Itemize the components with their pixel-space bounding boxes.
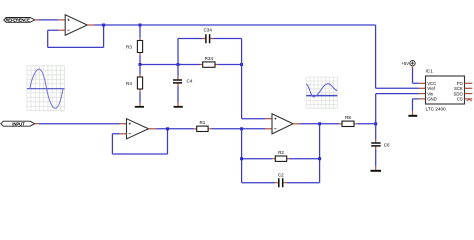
wire feedback right column: [319, 124, 321, 183]
wire C34 branch: [178, 39, 242, 65]
wire Vref stub: [376, 87, 419, 89]
node U2 output junction: [166, 127, 169, 130]
capacitor C2: [279, 178, 283, 187]
graph G2 axis: [306, 95, 337, 97]
wire U2 feedback loop: [112, 129, 167, 154]
node R2 right junction: [318, 157, 321, 160]
wire C2 row: [242, 182, 320, 184]
node R3 tap junction: [139, 24, 142, 27]
power +5V: [401, 61, 415, 66]
svg-text:C6: C6: [384, 142, 390, 147]
svg-text:R2: R2: [278, 150, 284, 155]
resistor R4: [137, 77, 142, 89]
wire GND pin to ground: [419, 98, 426, 100]
svg-text:INPUT: INPUT: [12, 121, 25, 126]
svg-text:Vin: Vin: [427, 91, 434, 96]
graph G1 sine wave: [30, 69, 63, 108]
IC IC1 LTC2400: [426, 68, 473, 111]
wire R1 to U3: [211, 128, 265, 130]
graph display G2 grid: [306, 77, 337, 108]
wire INPUT to U2: [35, 123, 39, 125]
svg-text:R8: R8: [345, 115, 351, 120]
pin stub SCK: [465, 87, 473, 89]
wire C6 column: [375, 124, 377, 140]
pin stub CS with active-low mark: [465, 98, 473, 100]
node R3/R4 junction: [139, 63, 142, 66]
tag REFERENCE: [4, 18, 35, 23]
tag INPUT: [1, 121, 35, 126]
svg-text:GND: GND: [427, 97, 437, 102]
svg-text:R1: R1: [199, 120, 205, 125]
node right column junction: [240, 63, 243, 66]
svg-text:C34: C34: [203, 28, 212, 33]
ground under IC: [408, 115, 417, 117]
wire U2 output to R1: [157, 128, 194, 130]
wire right column to U3 + input: [242, 65, 265, 119]
capacitor C34: [206, 34, 210, 43]
ground under C6: [371, 170, 382, 172]
node C4 junction: [177, 63, 180, 66]
wire +5V to VCC: [412, 66, 414, 68]
wire U3 output to R8: [300, 123, 339, 125]
wire U1 output stub: [87, 24, 94, 26]
op-amp U3: [272, 114, 293, 134]
svg-text:R4: R4: [126, 81, 132, 86]
wire Vin net: [376, 94, 419, 124]
wire R3 column: [139, 25, 141, 38]
op-amp U2 (input buffer): [127, 119, 149, 139]
wire U3 output stub: [293, 123, 300, 125]
pin stub FO: [465, 82, 473, 84]
svg-text:+5V: +5V: [401, 61, 409, 66]
op-amp U1 (reference buffer): [65, 15, 87, 36]
wire R4 column: [139, 65, 141, 75]
svg-text:R34: R34: [205, 56, 214, 61]
graph G2 sine wave: [306, 84, 337, 97]
svg-text:LTC 2400: LTC 2400: [426, 107, 447, 112]
svg-text:C2: C2: [278, 172, 284, 177]
svg-text:IC1: IC1: [426, 68, 434, 73]
wire C4 column: [177, 65, 179, 77]
wire mid net: [140, 64, 242, 66]
capacitor C4: [173, 80, 182, 83]
node U1 output junction: [102, 24, 105, 27]
wire U2 output stub: [149, 128, 157, 130]
capacitor C6: [371, 143, 381, 146]
wire REFERENCE to U1 + input: [35, 19, 39, 21]
graph G1 axis: [27, 88, 65, 90]
wire feedback column down: [241, 129, 243, 183]
resistor R34: [200, 64, 219, 66]
wire U1 feedback loop: [48, 25, 104, 47]
svg-text:R3: R3: [126, 44, 132, 49]
resistor R3: [137, 41, 142, 53]
pin stub SDO: [465, 93, 473, 95]
resistor R2: [272, 158, 289, 160]
node R2 left junction: [240, 157, 243, 160]
graph display G1 grid: [27, 66, 65, 111]
svg-text:C4: C4: [187, 79, 193, 84]
node R8/C6/Vin junction: [374, 122, 377, 125]
wire R8 to C6 node: [357, 123, 376, 125]
svg-text:SDO: SDO: [453, 91, 463, 96]
ground under C4: [174, 106, 183, 108]
wire top net: [95, 25, 376, 88]
svg-text:REFERENCE: REFERENCE: [5, 18, 30, 23]
ground under R4: [135, 106, 144, 108]
resistor R8: [339, 123, 357, 125]
node feedback tap junction: [318, 122, 321, 125]
node R1/U3 junction: [240, 127, 243, 130]
resistor R1: [194, 128, 212, 130]
wire R2 row: [242, 158, 320, 160]
svg-text:CS: CS: [457, 97, 463, 102]
